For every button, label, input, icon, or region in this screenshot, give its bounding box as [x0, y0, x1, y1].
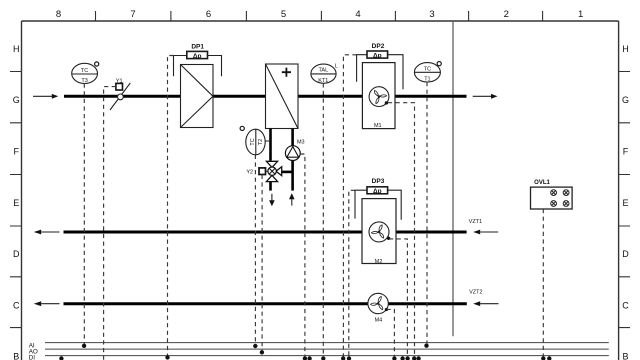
svg-text:T1: T1 [424, 76, 430, 82]
node junction dot T1-AI [424, 344, 428, 348]
svg-text:G: G [13, 95, 20, 105]
wire DP2 sensing tubes [357, 55, 403, 90]
node junction dot M4 motor [385, 308, 388, 311]
wire T2 to AI [254, 155, 256, 344]
wire DP1 to DI [168, 56, 174, 356]
wire supply duct seg4 [395, 95, 467, 98]
svg-text:TC: TC [250, 138, 256, 145]
border left [21, 21, 23, 360]
svg-text:DP3: DP3 [372, 178, 385, 185]
wire supply duct seg2 [213, 95, 266, 98]
arrow VZT2 left [34, 301, 60, 306]
grid ticks right [619, 72, 630, 328]
wire bus DI [45, 355, 609, 357]
DUCT LINES [64, 96, 467, 303]
svg-text:T2: T2 [258, 139, 264, 145]
node junction dot M2 motor [387, 237, 390, 240]
wire DP1 sensing tubes [174, 56, 222, 77]
sensor TC/T3 [72, 63, 98, 83]
node O mark of T2 [240, 126, 244, 130]
svg-text:H: H [622, 44, 629, 54]
arrow VZT1 right [473, 230, 498, 235]
svg-text:5: 5 [281, 9, 286, 20]
node O mark of T3 [95, 62, 99, 66]
node junction dot spare 4 [416, 356, 420, 360]
pipe valve tee [281, 171, 292, 174]
arrow supply outlet [473, 94, 498, 99]
svg-text:8: 8 [56, 9, 61, 20]
svg-text:E: E [13, 198, 19, 208]
svg-text:OVL1: OVL1 [534, 180, 550, 186]
grid ticks left [10, 72, 22, 328]
wire M3 to DO [300, 154, 305, 356]
valve actuator Y2 [246, 168, 268, 176]
grid ticks top [96, 11, 543, 21]
pipe coil return lower [291, 160, 294, 190]
valve Y2 three-way [266, 161, 281, 181]
svg-text:VZT1: VZT1 [469, 219, 482, 225]
grid numbers top [56, 9, 583, 20]
fan M1 supply [362, 63, 395, 129]
lamp 1 [551, 190, 557, 196]
filter F1 [181, 65, 214, 128]
svg-text:Δp: Δp [193, 53, 202, 60]
wire DP3 to DI [349, 190, 355, 356]
svg-text:C: C [622, 300, 629, 310]
node junction dot DP2 [341, 356, 345, 360]
wire T1 to AI [426, 82, 428, 344]
svg-text:E: E [622, 198, 628, 208]
pipe coil supply [269, 129, 272, 161]
svg-text:M4: M4 [375, 317, 383, 323]
wire extract duct VZT2 seg2 [388, 302, 467, 305]
arrow VZT2 right [473, 301, 498, 306]
svg-text:KT1: KT1 [318, 78, 328, 84]
svg-text:Δp: Δp [373, 52, 382, 59]
arrow supply inlet [33, 94, 58, 99]
pipe below valve [269, 182, 272, 191]
wire bus AO [45, 348, 609, 350]
svg-text:VZT2: VZT2 [469, 290, 482, 296]
svg-text:DP2: DP2 [372, 43, 385, 50]
node damper pivot [118, 94, 124, 100]
svg-text:3: 3 [429, 9, 434, 20]
svg-text:B: B [13, 352, 19, 360]
damper blade Y1 [110, 83, 130, 110]
node junction dot spare 1 [59, 356, 63, 360]
node junction dot OVL1 [541, 356, 545, 360]
wire supply duct seg1 [64, 95, 181, 98]
wire DP3 sensing tubes [355, 190, 401, 220]
separator line between plant and panel zone [452, 21, 454, 336]
wire supply duct seg3 [298, 95, 362, 98]
pipe coil return upper [291, 129, 294, 146]
svg-text:Δp: Δp [373, 188, 382, 195]
sensor TC/T2 [246, 129, 269, 155]
node junction dot spare 3 [400, 356, 404, 360]
wire M1 to DO [388, 103, 415, 357]
wire bus AI [45, 342, 609, 344]
node junction dot T2-AI [253, 344, 257, 348]
svg-text:Y2: Y2 [246, 170, 253, 176]
svg-text:G: G [622, 95, 629, 105]
damper actuator Y1 [116, 78, 123, 90]
node junction dot KT1 [321, 356, 325, 360]
svg-text:C: C [13, 300, 20, 310]
wire extract duct VZT2 seg1 [64, 302, 369, 305]
node O mark of T1 [437, 62, 441, 66]
pump M3 [285, 140, 304, 161]
svg-text:D: D [13, 249, 20, 259]
svg-text:F: F [623, 147, 629, 157]
svg-text:4: 4 [355, 9, 360, 20]
node junction dot DP1-DI [165, 355, 169, 359]
lamp panel OVL1 [531, 180, 573, 209]
wire KT1 to DI [322, 83, 324, 356]
svg-text:D: D [622, 249, 629, 259]
sensor TC/T1 [414, 63, 440, 82]
pressure sensor DP3 [367, 178, 388, 195]
HEATING WATER CIRCUIT [271, 129, 293, 191]
lamp 3 [551, 201, 557, 207]
wire M2 to DO [389, 239, 407, 357]
node junction dot M1 motor [385, 101, 388, 104]
sensor TAL/KT1 [311, 64, 336, 83]
svg-text:F: F [13, 147, 19, 157]
node junction dot M4 bus [392, 356, 396, 360]
node junction dot spare 5 [547, 356, 551, 360]
svg-text:6: 6 [206, 9, 211, 20]
wire extract duct VZT1 seg1 [64, 231, 363, 234]
arrow water flow up [289, 193, 295, 205]
arrow water flow down [269, 194, 275, 206]
node junction dot spare 2 [307, 356, 311, 360]
grid letters right [622, 44, 629, 360]
arrow VZT1 left [34, 230, 60, 235]
svg-text:TAL: TAL [318, 68, 328, 74]
svg-text:7: 7 [130, 9, 135, 20]
lamp 4 [563, 201, 569, 207]
svg-text:M3: M3 [297, 140, 305, 146]
pressure sensor DP1 [187, 43, 208, 60]
svg-text:L: L [335, 63, 338, 69]
fan M4 extract2 [368, 293, 388, 313]
svg-text:TC: TC [81, 68, 88, 74]
svg-text:2: 2 [504, 9, 509, 20]
pressure sensor DP2 [367, 43, 388, 59]
wire Y1 to DO [104, 87, 116, 360]
svg-text:DI: DI [29, 355, 36, 360]
node plus mark of coil [282, 68, 291, 77]
wire Y2 to AO [261, 175, 263, 350]
node junction dot M2 bus [405, 356, 409, 360]
wire OVL1 to DO [542, 209, 544, 357]
svg-text:DP1: DP1 [191, 43, 204, 50]
svg-text:1: 1 [578, 9, 583, 20]
heating coil [266, 64, 299, 129]
node junction dot Y2-AO [260, 350, 264, 354]
I/O BUS [45, 343, 609, 356]
node junction dot DP3 [347, 356, 351, 360]
wire M4 to DO [387, 309, 395, 356]
wire T3 to AI [83, 84, 85, 344]
svg-text:M2: M2 [375, 259, 383, 265]
node junction dot M3 [303, 356, 307, 360]
svg-text:B: B [622, 352, 628, 360]
node junction dot T3-AI [82, 344, 86, 348]
wire extract duct VZT1 seg2 [396, 231, 467, 234]
svg-text:H: H [13, 44, 20, 54]
lamp 2 [563, 190, 569, 196]
fan M2 extract [362, 199, 396, 264]
node junction dot M1 bus [412, 356, 416, 360]
grid letters left [13, 44, 20, 360]
wire DP2 to AI [343, 55, 356, 357]
border right [618, 21, 620, 360]
svg-text:M1: M1 [374, 123, 382, 129]
svg-text:TC: TC [424, 66, 431, 72]
svg-text:T3: T3 [81, 78, 87, 84]
border top [22, 20, 619, 22]
